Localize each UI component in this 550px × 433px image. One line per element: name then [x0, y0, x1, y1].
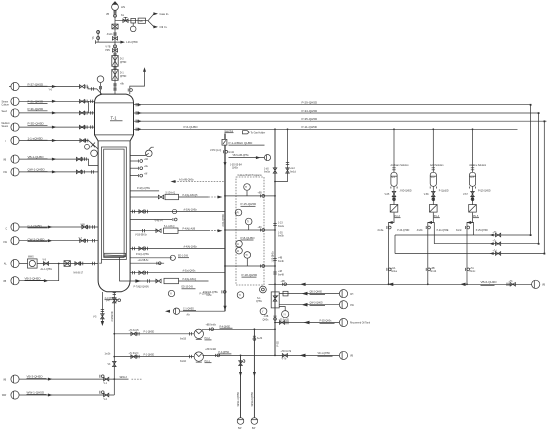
pipe QW-3 [279, 303, 339, 307]
node AL connector [4, 259, 19, 267]
row tiny text [135, 235, 148, 237]
flag To Gas Holder [243, 131, 266, 135]
filter D-2 [112, 53, 127, 67]
pump PU-5 [469, 205, 479, 218]
svg-text:P-34-QH5D: P-34-QH5D [302, 109, 319, 113]
dashed box culture broth [236, 174, 264, 285]
svg-text:J-3B: J-3B [264, 316, 269, 318]
instrument TI1 [244, 184, 251, 196]
wire right edge drop 2 [538, 113, 540, 244]
wire vertical through box [274, 283, 276, 355]
node VB-2 connector [3, 277, 19, 285]
wire line5 [19, 136, 98, 149]
svg-text:QH5x: QH5x [232, 168, 239, 170]
svg-text:Alkaline Solution: Alkaline Solution [469, 164, 487, 167]
pump PU-1 [194, 352, 211, 363]
row P-4b label [130, 188, 159, 191]
instrument C bubble [165, 308, 225, 316]
label J-90 [400, 191, 412, 193]
filter on AL line [64, 261, 70, 267]
node line5 connector I [6, 136, 20, 144]
row S-1-A box [130, 225, 222, 233]
instrument TI3 [244, 252, 251, 266]
svg-text:δm1c: δm1c [470, 271, 476, 273]
svg-text:Y-6: Y-6 [49, 89, 53, 91]
branch P-26 arrow [115, 41, 138, 45]
label P-8D cluster bottom [203, 290, 226, 297]
svg-text:5W: 5W [252, 428, 256, 430]
svg-text:δm1b: δm1b [107, 34, 113, 36]
small box fitting [131, 18, 136, 23]
vessel internal bottom screen [99, 253, 130, 281]
wire CW-2 [19, 238, 98, 243]
svg-text:YI: YI [170, 294, 173, 296]
valve pair AL [74, 262, 95, 275]
svg-text:1-55: 1-55 [278, 232, 283, 234]
control valve on SEW-2 top [253, 341, 259, 347]
row ED-1 circle [130, 254, 189, 260]
box with valve S-1 [271, 292, 279, 308]
svg-text:Y: Y [262, 311, 264, 313]
svg-text:δm1b: δm1b [228, 152, 234, 154]
wire lateral y41.6 [96, 40, 116, 44]
valve pair line4 [79, 125, 92, 129]
node VB-3 connector [3, 375, 19, 383]
pipe VD-1 [274, 351, 339, 360]
svg-text:P-24-QH3E: P-24-QH3E [437, 230, 449, 232]
drain funnel SEW-2 [251, 418, 258, 430]
instrument below branch [130, 23, 136, 32]
svg-text:Steam: Steam [2, 125, 9, 128]
svg-text:P-5D: P-5D [277, 341, 279, 347]
svg-text:P-9(x)-QH5x: P-9(x)-QH5x [136, 254, 150, 256]
instrument double circle [260, 286, 267, 293]
instrument cluster bottom [237, 292, 244, 299]
wire tank to pump [393, 186, 395, 204]
wire line3 [19, 101, 94, 114]
label 2-OL vertical [223, 214, 225, 227]
svg-text:V-7B: V-7B [105, 47, 110, 49]
svg-text:1-1-xQH5D: 1-1-xQH5D [28, 136, 44, 140]
wire right edge drop 3 [543, 121, 545, 253]
instrument bubble right of P-15 [274, 195, 276, 267]
svg-text:D-1: D-1 [120, 73, 124, 75]
svg-text:V-1: V-1 [104, 383, 108, 385]
row P-7N label [134, 286, 150, 288]
svg-text:J-2b-QH5D: J-2b-QH5D [126, 42, 138, 44]
control valve top branch [121, 15, 128, 22]
svg-text:VB-2-QH5D: VB-2-QH5D [25, 277, 42, 281]
pipe return A [395, 232, 531, 237]
valve +4B on vertical B [273, 223, 284, 277]
svg-text:+8e: +8e [144, 166, 149, 168]
flanges at vessel inlet [114, 83, 116, 91]
svg-text:V6B: V6B [81, 224, 86, 226]
svg-text:P-23-QH3D: P-23-QH3D [397, 230, 409, 232]
svg-text:+1A-5B-5x: +1A-5B-5x [138, 259, 150, 262]
svg-text:I: I [6, 141, 7, 143]
fitting +3D below box [263, 316, 277, 321]
svg-text:V-67: V-67 [463, 194, 468, 196]
wire bottom drain vertical [105, 295, 121, 395]
pipe P-2 [113, 353, 194, 359]
svg-text:S-1: S-1 [257, 298, 261, 300]
wire P-37 feed [19, 82, 101, 94]
wire tank to pump 3 [472, 186, 474, 204]
wire drop G-1 [392, 128, 395, 172]
check fitting station2 [426, 226, 430, 229]
svg-text:V-9: V-9 [43, 260, 47, 262]
svg-text:QW-1-QH5D: QW-1-QH5D [28, 168, 46, 172]
wire C-1 [19, 224, 98, 229]
svg-text:VB: VB [3, 379, 7, 381]
valves V7B [105, 45, 117, 52]
pipe P-3 [203, 328, 276, 357]
instrument at vessel top right [130, 147, 154, 157]
svg-text:+Gd: +Gd [290, 168, 295, 170]
fitting +3B on header [281, 281, 287, 286]
wire pump outlet down 3 [467, 213, 473, 285]
box NO [138, 18, 145, 23]
svg-text:VB: VB [106, 14, 110, 16]
svg-text:A-4(A)-QH5x: A-4(A)-QH5x [184, 245, 198, 248]
check valve station1 lower [387, 267, 398, 273]
svg-text:+7D δm7d: +7D δm7d [281, 351, 292, 353]
svg-text:V3: V3 [108, 364, 112, 366]
svg-text:P-1-QH5D: P-1-QH5D [144, 332, 155, 334]
svg-text:CH: CH [350, 294, 354, 296]
svg-text:C: C [6, 228, 8, 230]
instrument Y below [260, 308, 267, 315]
svg-text:VB-5-A/B-QH5x: VB-5-A/B-QH5x [233, 154, 250, 157]
wire riser station3 return [467, 223, 474, 236]
svg-text:P-6(A)-A/B-Q: P-6(A)-A/B-Q [183, 278, 197, 281]
check valve station2 lower [426, 268, 437, 273]
svg-text:δm5a: δm5a [264, 172, 270, 174]
svg-text:TI: TI [245, 255, 247, 257]
wire pump outlet down [388, 213, 394, 285]
svg-text:Acid Solution: Acid Solution [430, 164, 444, 167]
svg-text:V-7b: V-7b [282, 359, 287, 361]
svg-text:J-3D-55-B4: J-3D-55-B4 [230, 165, 242, 167]
svg-text:P-Q5-QH5D: P-Q5-QH5D [478, 191, 491, 193]
svg-text:+48: +48 [278, 271, 283, 273]
svg-text:VB-1-QH5D: VB-1-QH5D [28, 155, 45, 159]
svg-text:δm1a: δm1a [391, 271, 397, 273]
svg-text:PI: PI [237, 213, 240, 215]
top gauge PI [97, 76, 104, 94]
wire left drain [93, 292, 104, 326]
instrument PI2 [235, 268, 242, 275]
svg-text:AS: AS [121, 5, 125, 9]
instrument PI1 [235, 209, 242, 216]
node VB-1 connector [3, 155, 19, 163]
pipe return B [434, 241, 538, 246]
row V-4b fittings [130, 218, 177, 223]
svg-text:V-2: V-2 [104, 399, 108, 401]
pipe QB-2 [279, 291, 339, 296]
svg-text:δ+5x: δ+5x [207, 295, 213, 297]
svg-text:Seed: Seed [2, 111, 8, 113]
pipe P-34 header [134, 109, 539, 115]
svg-text:P-25-QH3D: P-25-QH3D [476, 230, 488, 232]
wire drop from P-11 header [274, 128, 288, 182]
node suction connector PU-1 [180, 355, 192, 363]
svg-text:YI: YI [239, 295, 242, 297]
MWS pump box [19, 257, 37, 268]
flag Gas Out [225, 130, 234, 133]
svg-text:QH5x: QH5x [256, 301, 263, 303]
instrument TI2 [245, 218, 252, 230]
svg-text:P-Q(x)5D: P-Q(x)5D [439, 191, 449, 193]
pipe VB-3 [19, 375, 148, 385]
svg-text:VB: VB [542, 285, 546, 287]
svg-text:VB: VB [350, 356, 354, 358]
pipe P-4 [202, 324, 276, 330]
svg-text:LI: LI [237, 244, 239, 246]
label P-Q5 [478, 191, 491, 193]
svg-text:+9B: +9B [258, 193, 263, 195]
label antifoam [391, 164, 410, 167]
svg-text:P-2b-QH5D: P-2b-QH5D [28, 100, 45, 104]
pump PU-2 [194, 329, 211, 340]
valve below blower [106, 11, 117, 18]
check fitting station1 [387, 226, 391, 229]
blower AS [112, 1, 125, 10]
svg-text:A-5(x)-QH5x: A-5(x)-QH5x [183, 270, 197, 273]
arrow oil in [153, 25, 167, 29]
valve pair QW-1 [76, 170, 93, 174]
pipe P-30 [274, 319, 339, 324]
svg-text:YI: YI [283, 314, 286, 316]
svg-text:δ+δb: δ+δb [257, 338, 263, 340]
check fitting station3 [465, 226, 469, 229]
wire drop G-2 [432, 128, 435, 172]
valve pair line1 [79, 85, 93, 91]
svg-text:+6B: +6B [430, 268, 435, 270]
svg-text:QH5D: QH5D [120, 62, 127, 64]
svg-text:+9C: +9C [258, 227, 263, 229]
svg-text:+7b δm7b: +7b δm7b [129, 330, 140, 332]
pipe P-35 header [134, 117, 547, 123]
svg-text:+7b: +7b [509, 281, 514, 283]
pump PU-3 [390, 205, 400, 218]
wire riser station1 return [394, 235, 396, 254]
node line3 connector [2, 109, 20, 117]
vent nozzle right [120, 67, 146, 94]
svg-text:P-2-QH5D: P-2-QH5D [144, 354, 155, 356]
svg-text:P-6-QH5D: P-6-QH5D [184, 125, 199, 129]
wire QW-1 [19, 168, 98, 174]
row S-1D box [130, 192, 222, 199]
svg-text:CW: CW [3, 172, 8, 174]
tank G-2 [430, 172, 436, 202]
pump PU-4 [430, 205, 440, 218]
check valve station3 lower [465, 267, 476, 273]
svg-text:δm1b: δm1b [430, 271, 436, 273]
svg-text:+8d: +8d [144, 159, 149, 161]
row A-5x [130, 270, 225, 275]
valve V-65 [385, 191, 396, 200]
wire box connections [223, 134, 234, 312]
svg-text:D-2: D-2 [120, 59, 124, 61]
row A-5 dashed [171, 178, 226, 183]
row +1A ticks [130, 259, 164, 265]
svg-text:P-15-QH5D: P-15-QH5D [241, 202, 258, 206]
svg-text:VB-6-QH3D: VB-6-QH3D [481, 280, 498, 284]
svg-text:Gas In.: Gas In. [160, 12, 170, 16]
svg-text:MWS: MWS [28, 257, 34, 259]
svg-text:P-3D-QH5D: P-3D-QH5D [28, 121, 45, 125]
svg-text:+35 δm35: +35 δm35 [279, 319, 290, 321]
svg-text:P-3D-QH5x: P-3D-QH5x [320, 320, 333, 322]
wire right edge drop 1 [530, 105, 532, 235]
branch P-18 [224, 265, 275, 278]
svg-text:ED-15-D-B: ED-15-D-B [182, 287, 194, 289]
svg-text:CW-2-QH5D: CW-2-QH5D [28, 238, 46, 242]
svg-text:+8f: +8f [144, 174, 148, 176]
svg-text:+8D δm8d: +8D δm8d [205, 349, 216, 351]
valve V-9 [43, 260, 49, 266]
svg-text:P-1-A/B&C QH5D: P-1-A/B&C QH5D [229, 141, 254, 145]
label 3-4 below vessel [105, 292, 119, 300]
svg-text:δm3a: δm3a [378, 230, 384, 232]
svg-text:P-37-QH5D: P-37-QH5D [28, 82, 45, 86]
pipe return C [395, 251, 544, 256]
svg-text:+4B: +4B [278, 258, 283, 260]
svg-text:Medium: Medium [2, 123, 10, 125]
svg-text:CW: CW [3, 242, 8, 244]
node C connector [6, 223, 20, 231]
svg-text:Culture Broth Programs: Culture Broth Programs [238, 174, 263, 177]
svg-text:+8b: +8b [120, 84, 125, 86]
wire line4 [19, 121, 94, 128]
wire cluster vertical B [264, 128, 277, 284]
wire VB-2 [19, 264, 59, 283]
svg-text:VD-1-QH5D: VD-1-QH5D [318, 353, 331, 355]
svg-text:CW: CW [350, 305, 355, 307]
svg-text:To Gas Holder: To Gas Holder [251, 132, 266, 135]
svg-text:TI: TI [247, 222, 249, 224]
svg-text:Recovered Oil Tank: Recovered Oil Tank [350, 322, 371, 325]
svg-text:P-4(A)(-A)/B: P-4(A)(-A)/B [183, 228, 196, 231]
pipe P-1 [113, 330, 194, 336]
svg-text:+7A: +7A [470, 267, 475, 270]
svg-text:C-1-QH5D: C-1-QH5D [28, 224, 43, 228]
svg-text:P-8(x)th-QH5x: P-8(x)th-QH5x [203, 291, 219, 294]
svg-text:P-35-QH5D: P-35-QH5D [302, 117, 319, 121]
node suction connector PU-2 [180, 332, 192, 340]
svg-text:δm4b: δm4b [278, 261, 284, 263]
wire SEW-1 vertical [238, 355, 245, 417]
svg-text:WW-1-QH5D: WW-1-QH5D [27, 391, 45, 395]
pipe WW-1 [19, 391, 114, 401]
drain funnel SEW-1 [237, 418, 244, 430]
wire pump outlet down 2 [427, 213, 433, 285]
svg-text:PRV: PRV [105, 50, 110, 52]
vessel T-1 shell [95, 94, 134, 292]
wire tank to pump 2 [432, 186, 434, 204]
svg-text:P-11-QH5D: P-11-QH5D [302, 125, 318, 129]
svg-text:J-9D-QH5D: J-9D-QH5D [400, 191, 412, 193]
valves under box [210, 150, 228, 153]
instrument at taper [91, 150, 98, 157]
label S-1 [256, 298, 263, 303]
valve pair VB-1 [76, 157, 86, 161]
branch P-15 [224, 193, 275, 207]
svg-text:V-4b +4: V-4b +4 [155, 221, 164, 223]
svg-text:VB: VB [3, 281, 7, 283]
svg-text:T-1: T-1 [111, 115, 118, 120]
pipe bottom header [269, 283, 532, 286]
svg-text:P-3b-QH5D: P-3b-QH5D [28, 107, 45, 111]
label P-24 [417, 230, 449, 232]
svg-text:A-5(A)-QH5x: A-5(A)-QH5x [184, 208, 198, 211]
svg-text:δm1D: δm1D [180, 361, 186, 363]
svg-text:Antifoam Solution: Antifoam Solution [391, 164, 410, 167]
tank G-3 [469, 172, 475, 202]
label alkaline [469, 164, 487, 167]
svg-text:V-7: V-7 [79, 238, 83, 240]
svg-text:P-29-QH5D: P-29-QH5D [302, 101, 319, 105]
svg-text:δm: δm [121, 15, 124, 17]
pipe P-29 header [134, 101, 531, 107]
svg-text:Steam: Steam [2, 101, 9, 104]
svg-text:1-23: 1-23 [278, 223, 283, 225]
node connector recovered oil [339, 318, 370, 326]
row A-5A [130, 208, 225, 213]
node VB connector right [532, 280, 546, 288]
svg-text:G-1: G-1 [392, 177, 397, 179]
label VB-6 [481, 280, 498, 285]
valve V-66 [424, 191, 435, 200]
valves on vertical y34-38 [107, 32, 118, 40]
valve pair line3 [79, 111, 92, 115]
node WW-1 connector [2, 391, 19, 399]
instrument FI [236, 247, 243, 254]
svg-text:AL: AL [4, 263, 8, 266]
valve V-76 [507, 281, 515, 286]
pipe P-6/P-11 header [134, 125, 518, 131]
valve V-67 [463, 191, 474, 200]
wire riser station2 return [428, 223, 435, 244]
svg-text:P-18-QH5D: P-18-QH5D [242, 273, 259, 277]
svg-text:QW-3-QH6D: QW-3-QH6D [310, 303, 323, 305]
label P-25 [456, 230, 488, 232]
svg-text:A-5-A/B-QH5x: A-5-A/B-QH5x [179, 178, 195, 181]
svg-text:δm5b: δm5b [278, 236, 284, 238]
node QW-1 connector [3, 168, 19, 176]
branch P-8 [224, 227, 275, 240]
fitting row y156.6 [130, 159, 149, 163]
instrument LI [236, 241, 243, 248]
box P-1-A/B&C [222, 139, 265, 145]
node P-37 connector [9, 82, 19, 90]
svg-text:SEW-1-QH5D: SEW-1-QH5D [238, 392, 240, 407]
node connector VB-5 [264, 155, 270, 161]
wire main top vertical [114, 10, 116, 94]
svg-text:G-2: G-2 [431, 177, 436, 179]
valve on drop [286, 163, 297, 174]
label P-23 [378, 230, 410, 232]
label P-5 vertical [277, 341, 279, 347]
label J-3D [230, 165, 242, 170]
svg-text:V-65: V-65 [385, 194, 390, 196]
svg-text:δm3c: δm3c [456, 230, 462, 232]
svg-text:2-OL-QH3D: 2-OL-QH3D [223, 214, 225, 227]
wire VB-5 [229, 154, 265, 159]
svg-text:δm48: δm48 [278, 274, 284, 276]
